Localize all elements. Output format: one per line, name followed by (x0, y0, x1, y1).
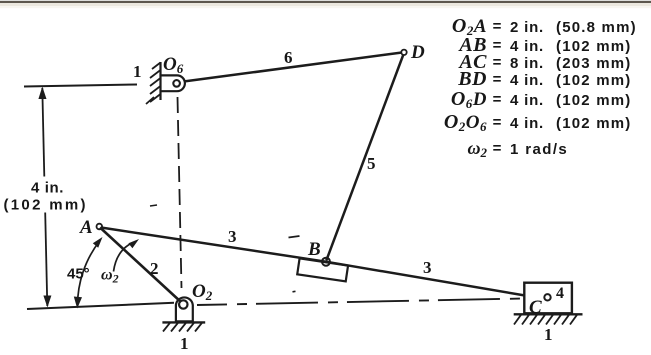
dimension line 4 in (vertical, arrows both ends) (42, 88, 44, 177)
svg-text:4 in.: 4 in. (31, 180, 64, 197)
svg-text:D: D (410, 42, 425, 63)
node D (401, 50, 406, 55)
scan speck near link 3 (150, 205, 157, 206)
svg-text:(102 mm): (102 mm) (4, 197, 88, 214)
svg-text:5: 5 (367, 154, 376, 173)
ground wall at O6 (hatched) (159, 62, 161, 100)
equation line O2O6 (444, 111, 632, 134)
svg-text:(203 mm): (203 mm) (556, 55, 631, 72)
equation line omega2 (467, 138, 568, 160)
node C pin (544, 294, 550, 300)
slider block at B (297, 258, 348, 281)
svg-text:ω2: ω2 (467, 138, 487, 160)
scan speck above slider B (289, 236, 300, 238)
svg-text:(50.8 mm): (50.8 mm) (556, 19, 637, 36)
scan speck below slider B (293, 290, 296, 293)
omega2 rotation arrow (114, 243, 134, 272)
svg-text:1 rad/s: 1 rad/s (510, 141, 568, 158)
svg-text:B: B (307, 239, 321, 260)
svg-text:8 in.: 8 in. (510, 55, 544, 72)
svg-text:4 in.: 4 in. (510, 92, 544, 109)
equation line O2A (452, 15, 637, 38)
svg-text:1: 1 (180, 334, 189, 353)
scan edge artifact top (decorative) (0, 1, 651, 3)
equation line BD (457, 68, 631, 90)
ground under C (hatched) (514, 313, 583, 315)
svg-text:4: 4 (556, 285, 564, 302)
equation line O6D (451, 88, 632, 111)
svg-text:4 in.: 4 in. (510, 38, 544, 55)
wire: top extension line from dimension to O6 wall (24, 85, 137, 87)
node B pin (322, 258, 330, 266)
svg-text:3: 3 (228, 227, 237, 246)
svg-text:1: 1 (133, 62, 142, 81)
svg-text:O6D: O6D (451, 88, 487, 111)
node A (97, 224, 103, 230)
svg-text:6: 6 (284, 48, 293, 67)
ground under O2 (hatched) (162, 321, 205, 323)
link 3 (A to B to C) (101, 228, 525, 296)
svg-text:3: 3 (423, 258, 432, 277)
svg-text:O2: O2 (192, 281, 213, 303)
svg-text:=: = (493, 37, 502, 54)
svg-text:2 in.: 2 in. (510, 19, 544, 36)
svg-text:4 in.: 4 in. (510, 72, 544, 89)
svg-text:(102 mm): (102 mm) (556, 92, 631, 109)
svg-text:O2O6: O2O6 (444, 111, 487, 134)
svg-text:=: = (493, 18, 502, 35)
svg-text:4 in.: 4 in. (510, 115, 544, 132)
slider block 4 at C (524, 283, 572, 314)
svg-text:=: = (493, 54, 502, 71)
svg-text:(102 mm): (102 mm) (556, 115, 631, 132)
svg-text:45°: 45° (67, 266, 90, 283)
svg-text:BD: BD (457, 68, 487, 90)
pivot O2 (block with hole) (176, 297, 193, 321)
svg-text:1: 1 (544, 325, 553, 344)
svg-text:(102 mm): (102 mm) (556, 72, 631, 89)
svg-text:(102 mm): (102 mm) (556, 38, 631, 55)
link 2 (A to O2) (100, 228, 181, 303)
wire: bottom extension/ground line left of O2 (27, 303, 174, 309)
link 5 (D to B) (326, 55, 403, 261)
svg-text:=: = (493, 140, 502, 157)
svg-text:O6: O6 (163, 54, 184, 76)
svg-text:=: = (493, 114, 502, 131)
equation line AC (457, 51, 631, 73)
equation line AB (457, 34, 631, 56)
dash-dot centerline O2 to C (horizontal) (197, 299, 524, 306)
svg-text:A: A (79, 217, 93, 238)
dashed centerline O6 to O2 (vertical) (178, 97, 182, 288)
link 6 (O6 to D) (186, 53, 402, 82)
svg-text:ω2: ω2 (101, 267, 119, 286)
svg-text:2: 2 (150, 259, 159, 278)
45 degree arc with arrows (77, 241, 100, 307)
svg-text:=: = (493, 91, 502, 108)
svg-text:=: = (493, 71, 502, 88)
pivot bracket O6 (160, 75, 185, 91)
